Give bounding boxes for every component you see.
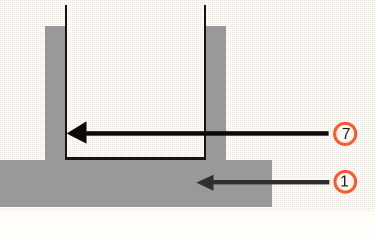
callout label 7: [342, 126, 351, 143]
callout label 1: [340, 173, 349, 190]
base slab (part 1): [0, 160, 272, 207]
arrow 1 head: [196, 175, 213, 191]
arrow 7 shaft: [80, 131, 329, 136]
left gray column (crucible wall): [45, 26, 65, 160]
arrow 1 shaft: [210, 180, 329, 184]
arrow 7 head: [67, 121, 87, 143]
right gray column (crucible wall): [206, 26, 226, 160]
container black U outline: [65, 5, 206, 161]
callout circle 1 ring: [334, 171, 356, 193]
svg-text:1: 1: [340, 173, 349, 190]
callout circle 7 ring: [334, 122, 357, 145]
svg-text:7: 7: [342, 126, 351, 143]
